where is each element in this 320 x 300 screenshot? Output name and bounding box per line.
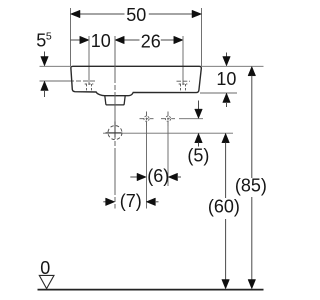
dimension 10 right: down arrow [226,53,228,59]
extension line tap hole left x=89 [88,36,90,85]
dimension 50 arrow right [192,10,202,18]
dimension 10 top line [71,39,81,41]
fixing hole right vertical line [167,126,169,186]
svg-text:(5): (5) [187,145,209,165]
washbasin outline [71,66,201,95]
fixing hole right symbol [165,116,170,121]
dimension 10 right: up arrow [223,93,231,102]
svg-text:(7): (7) [120,191,142,211]
fixing holes extension line y=118.7 [179,118,203,120]
svg-text:10: 10 [216,69,236,89]
dimension 26 line [115,39,140,41]
tap/overflow line y=133.2 [103,132,233,134]
dimension (6): left arrow [130,176,137,178]
svg-text:(6): (6) [147,166,169,186]
siphon circle crosshair [106,132,122,134]
dimension 5.5 down arrow [44,52,46,59]
dimension (6): right arrow [168,173,177,181]
dimension 5.5 upper extension line [40,65,71,67]
dimension (60) line [222,133,230,142]
dimension (7): left arrow [103,201,106,203]
basin bottom extension line right [200,92,237,94]
floor line [38,289,264,291]
svg-text:10: 10 [91,31,111,51]
tap hole right centerline [177,80,191,82]
dimension (7): right arrow [146,198,155,206]
svg-text:(85): (85) [235,175,267,195]
top edge extension right [202,65,264,67]
datum triangle [39,275,54,288]
tap hole left (dashed, hidden) [86,84,88,91]
dimension (5): down arrow [198,101,200,111]
tap hole right (dashed, hidden) [180,84,182,92]
siphon circle (dashed) [108,126,122,140]
dimension (5): up arrow [195,133,203,142]
centerline drain x=115 [114,36,116,209]
extension line tap hole right x=183 [182,36,184,85]
extension line right edge x=201.5 [201,8,203,66]
dimension 50 arrow left [71,10,81,18]
dimension (85) line [248,67,256,76]
fixing hole left vertical line [146,126,148,209]
svg-text:5: 5 [36,31,46,51]
svg-text:(60): (60) [208,197,240,217]
drain outlet [105,96,125,105]
svg-text:50: 50 [126,5,146,25]
dimension 5.5 up arrow [41,81,49,90]
dimension 5.5 lower extension line (tap hole centerline) [40,80,75,82]
dimension 50 line [71,13,125,15]
dimension 26 arrow right [174,36,183,44]
svg-text:5: 5 [46,31,52,43]
dimension 26 arrow left [115,36,124,44]
dimension 10 top arrow [80,36,89,44]
svg-text:26: 26 [141,31,161,51]
extension line left edge x=70.5 [70,8,72,66]
fixing hole left symbol [144,116,149,121]
